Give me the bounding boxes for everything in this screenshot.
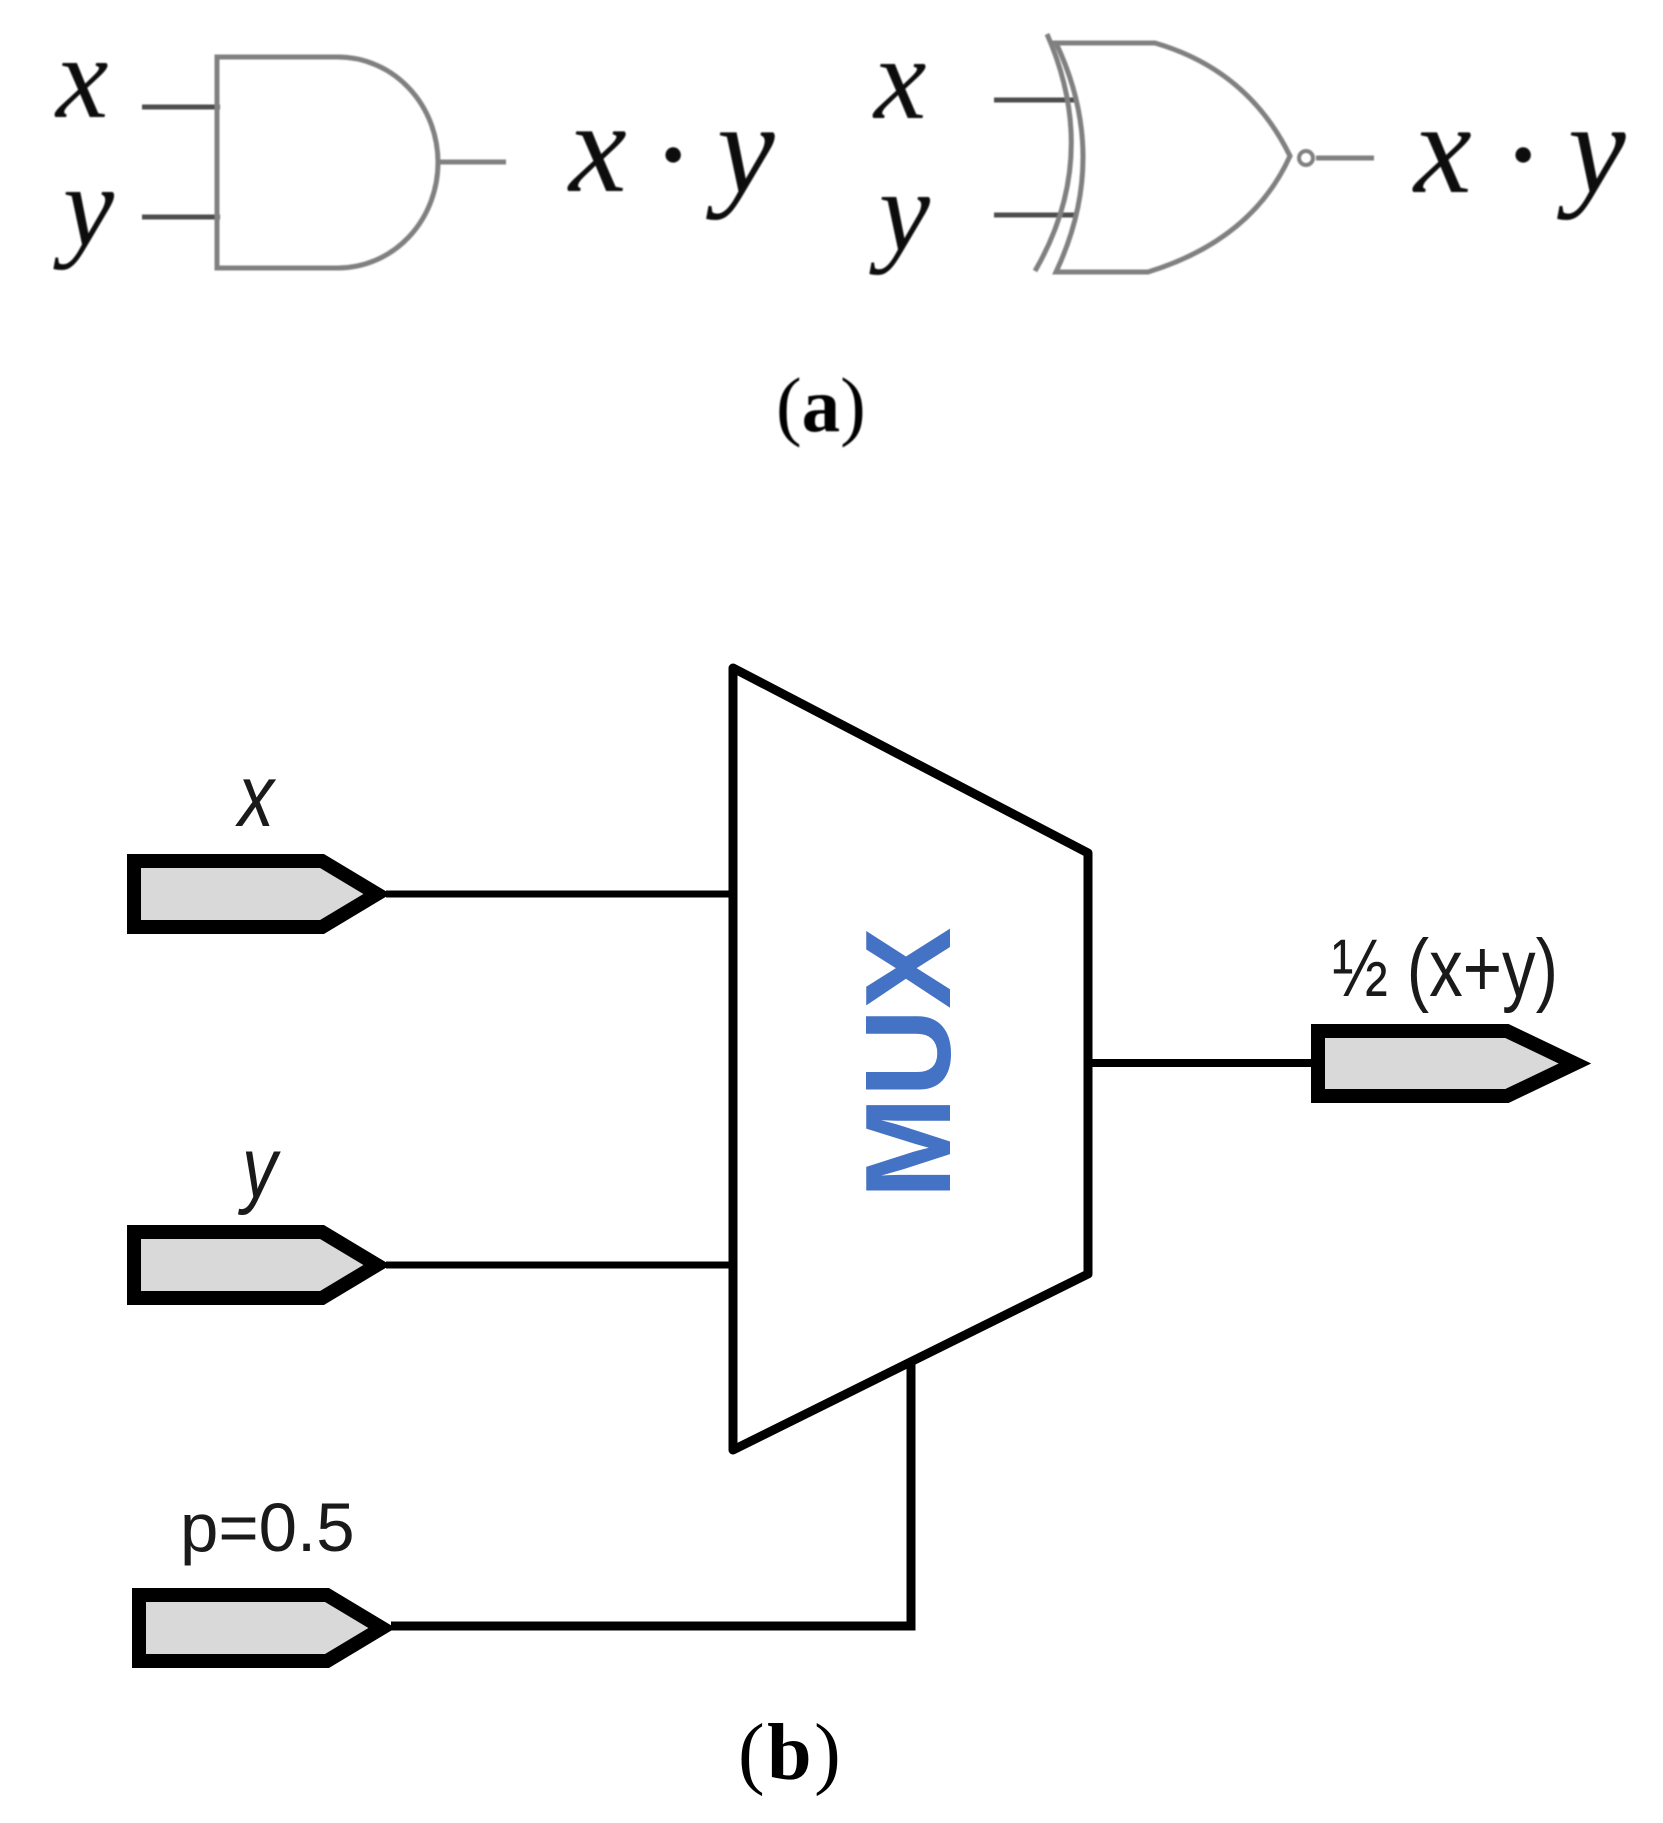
svg-text:MUX: MUX — [840, 927, 976, 1198]
svg-text:(a): (a) — [776, 362, 866, 448]
wire XNOR input x — [994, 98, 1074, 103]
input connector y (arrow tag) — [134, 1232, 377, 1298]
wire AND input x — [142, 105, 220, 110]
svg-text:·: · — [655, 83, 688, 227]
svg-text:x: x — [54, 12, 108, 143]
wire select p to MUX — [391, 1360, 911, 1626]
wire AND input y — [142, 215, 220, 220]
input connector p=0.5 (arrow tag) — [139, 1595, 382, 1661]
multiplexer U3 (MUX trapezoid) — [733, 668, 1088, 1450]
AND gate U1 — [217, 57, 438, 268]
wire XNOR output — [1316, 156, 1374, 161]
wire AND output — [438, 160, 506, 165]
svg-text:x: x — [1412, 77, 1472, 221]
svg-text:y: y — [706, 77, 775, 221]
svg-text:y: y — [53, 143, 115, 270]
svg-text:x: x — [567, 76, 627, 220]
svg-text:·: · — [1505, 83, 1538, 227]
svg-text:x: x — [872, 13, 926, 144]
XNOR gate U2 extra input arc — [1035, 34, 1071, 271]
svg-text:x: x — [234, 747, 276, 845]
svg-text:y: y — [1557, 77, 1626, 221]
svg-text:y: y — [869, 148, 931, 275]
wire x to MUX — [386, 891, 737, 898]
svg-text:(b): (b) — [738, 1709, 843, 1797]
XNOR gate U2 body — [1056, 43, 1290, 272]
wire y to MUX — [386, 1262, 737, 1269]
wire XNOR input y — [994, 213, 1074, 218]
XNOR gate U2 inversion bubble — [1299, 151, 1313, 165]
input connector x (arrow tag) — [134, 861, 377, 927]
svg-text:p=0.5: p=0.5 — [180, 1489, 355, 1566]
svg-text:½ (x+y): ½ (x+y) — [1332, 922, 1558, 1014]
svg-text:y: y — [238, 1119, 282, 1215]
wire MUX output — [1092, 1059, 1330, 1067]
output connector (arrow tag) — [1318, 1031, 1575, 1096]
